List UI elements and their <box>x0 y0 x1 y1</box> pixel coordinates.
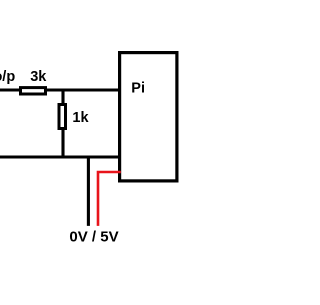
svg-text:3k: 3k <box>30 69 47 85</box>
wire: vertical lead from R2 bottom to 0V bus <box>61 128 64 158</box>
wire: red 5V lead to Pi <box>98 172 121 226</box>
svg-text:o/p: o/p <box>0 69 15 85</box>
wire: bottom bus from left edge to Pi <box>0 155 121 158</box>
svg-text:Pi: Pi <box>131 81 145 97</box>
svg-text:1k: 1k <box>72 110 89 126</box>
resistor R1 3k (series) <box>21 88 46 94</box>
wire: input net from left edge to Pi <box>0 88 121 91</box>
Pi box U1 <box>120 53 177 181</box>
resistor R2 1k (pull-down) <box>59 105 66 129</box>
svg-text:0V / 5V: 0V / 5V <box>69 229 118 246</box>
wire: black GPIO lead going down from bus <box>87 157 90 226</box>
wire: vertical lead from input net down to R2 top <box>61 90 64 106</box>
